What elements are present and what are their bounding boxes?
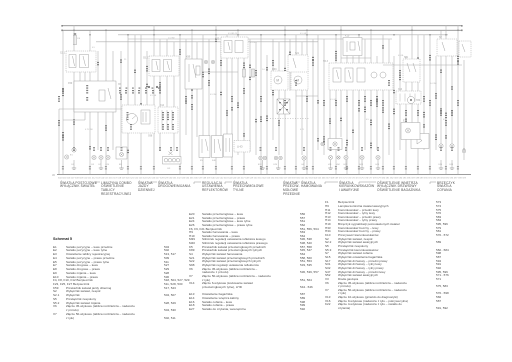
wire [295,35,297,174]
wire [73,26,75,150]
wire [215,26,217,174]
lamp E2 [65,155,69,159]
svg-text:0.5: 0.5 [366,119,370,121]
wire feeder [128,38,392,40]
wire [202,35,204,174]
svg-text:M: M [276,79,279,83]
connector X6 pins [118,84,160,89]
wire [358,35,360,174]
svg-text:F4: F4 [78,38,81,40]
svg-text:S21: S21 [295,53,300,55]
wire link S98 [59,108,122,110]
legend column 2b [189,293,305,296]
switch S15 [459,41,471,57]
svg-text:H11: H11 [328,164,332,166]
svg-text:0.75: 0.75 [300,129,305,131]
wire [62,30,64,174]
dashed link [270,118,310,120]
lamp E10 [106,155,110,159]
svg-text:H30: H30 [416,100,421,102]
relay K59 [68,81,116,112]
wire [260,35,262,174]
bus 15 [61,30,462,32]
turn signal switch S5.3 [323,60,393,90]
wire [411,26,413,132]
wire link [63,119,85,121]
coding plug X14 LHD [234,141,250,153]
svg-text:H9: H9 [302,164,305,166]
license lamp E3 [163,152,182,170]
legend column 2 [189,213,305,216]
wire [97,51,99,150]
relay K89 [185,56,202,90]
svg-text:K10: K10 [345,34,350,37]
wire [159,39,161,150]
header brackets [96,182,436,184]
svg-text:LHD: LHD [237,145,243,149]
svg-text:E16: E16 [439,164,443,166]
svg-text:S5.3: S5.3 [323,60,329,63]
wire [329,90,331,150]
connector marks [62,39,465,153]
motor M39 [271,69,288,90]
wire [301,42,303,155]
legend column 3 [325,201,493,204]
wire [289,39,291,91]
fuse F4 [73,33,81,44]
lamp H11 [328,155,332,159]
svg-text:0.75 SW: 0.75 SW [85,129,93,131]
bus 30 [61,25,462,27]
interior lamp E14 [401,121,420,140]
node junctions bus [73,29,459,31]
diagnostic connector X16 [396,89,421,104]
side marker H34 [337,156,340,159]
wire feeder 58 [118,34,448,36]
svg-text:E26: E26 [274,164,278,166]
wire [284,26,286,174]
wire [312,39,314,174]
wire [272,39,274,140]
door switch cluster S31 [403,57,420,82]
wire [382,35,384,174]
lamp E13 [462,149,466,153]
svg-text:E7: E7 [99,164,102,166]
svg-text:H34: H34 [336,164,341,166]
svg-text:M39: M39 [272,69,277,71]
wire [417,35,419,174]
wire [112,51,114,150]
ground symbols [72,160,454,170]
wire [376,56,378,150]
svg-text:K89: K89 [186,56,191,59]
wire [146,51,148,133]
lamp E8 in housing [116,147,127,159]
svg-text:0.5 BL: 0.5 BL [398,55,405,57]
connector block X8 [277,99,290,114]
svg-text:E9: E9 [92,164,95,166]
wire [237,30,239,155]
wire left margin [58,109,60,174]
switch unit S2.1 [60,51,96,72]
wire [423,35,425,150]
wire link [341,57,371,59]
wire [231,39,233,174]
wire [335,35,337,174]
wire [278,42,280,155]
svg-text:30: 30 [52,173,55,177]
connector pin ticks [62,166,459,169]
wire [153,26,155,174]
wire link [296,95,318,97]
svg-text:E1: E1 [70,155,73,157]
wire [451,56,453,146]
wire [255,42,257,155]
wire [457,26,459,174]
wire [173,42,175,151]
wire [429,35,431,174]
svg-text:E8: E8 [119,164,122,166]
wire [435,56,437,150]
wire [179,35,181,174]
leveling switch S98 [122,105,155,138]
switch unit S5.2 [143,56,179,76]
lamp E9 [92,155,96,159]
svg-text:E1: E1 [72,164,75,166]
lamp E24 [259,156,267,160]
switch S21 [288,53,308,72]
wire [393,56,395,174]
wire link [121,133,147,146]
wire [364,39,366,150]
svg-text:S31: S31 [404,57,409,59]
side marker H33 [321,142,324,145]
node X6 dots [148,86,158,88]
svg-text:S22: S22 [215,38,220,41]
lamp H14 [376,155,380,159]
lamp E16 [439,144,443,148]
wire [352,56,354,150]
wire [306,30,308,174]
wire [79,51,81,95]
svg-text:504 505 506 507 508 509 510 51: 504 505 506 507 508 509 510 511 512 513 … [58,178,467,180]
wire [463,60,465,160]
svg-text:E3: E3 [168,168,171,170]
svg-text:1.5 SW: 1.5 SW [168,38,175,40]
wire [388,39,390,155]
fuse F6 [243,69,246,77]
wire [191,30,193,174]
switch S7 [437,37,457,56]
svg-text:S5.2: S5.2 [143,57,149,60]
svg-text:E10: E10 [106,164,110,166]
wire [370,30,372,174]
buzzer H30 [407,96,421,103]
lamp E7 [99,155,103,159]
indicator lamps [204,60,214,63]
wire [323,39,325,155]
svg-text:E24: E24 [258,164,262,166]
lamp E26 [274,156,282,160]
coding connector X14 [158,105,178,133]
lamp E18 [450,144,454,148]
wire [105,30,107,174]
wire [399,35,401,150]
wire [196,42,198,137]
svg-text:25: 25 [124,59,127,61]
legend column 1 [53,237,72,241]
connector chains [58,60,459,138]
relay K5 [199,136,210,163]
svg-text:0.5 GR: 0.5 GR [300,33,307,35]
wire link [383,64,462,66]
motor M40 [291,69,308,90]
wire [134,35,136,105]
fuse F9 [252,69,255,77]
wire [127,35,129,174]
wire feeder [96,41,318,43]
wire [405,56,407,174]
svg-text:0.5 BR-25: 0.5 BR-25 [228,33,238,35]
wire [249,39,251,152]
svg-text:X16: X16 [398,89,403,91]
lamp E1 [70,148,76,157]
svg-text:0.5 GE: 0.5 GE [150,95,157,97]
wire [317,35,319,150]
wire [226,35,228,134]
diode V3 [411,132,429,149]
module housing [224,134,233,157]
wire [440,30,442,146]
ground rail 31 [52,173,471,177]
wire [84,51,86,120]
lamp H10 in housing [328,139,342,150]
relay module [212,136,223,163]
wire [208,39,210,158]
svg-text:S98: S98 [148,135,153,138]
wire link [203,71,238,73]
svg-text:0.5 GN: 0.5 GN [330,99,337,101]
lamp H9 [302,156,306,160]
svg-text:1.0 SW: 1.0 SW [430,83,437,85]
wire [243,42,245,174]
svg-text:X14: X14 [160,105,165,107]
wire [89,30,91,174]
wire [340,26,342,137]
wire [346,39,348,174]
wire [120,51,122,146]
wire [166,39,168,107]
svg-text:S7: S7 [439,37,443,39]
svg-text:S2.1: S2.1 [60,52,66,55]
wire [185,39,187,135]
svg-text:E14: E14 [403,121,408,123]
svg-text:0.5: 0.5 [92,47,96,49]
wire [445,26,447,174]
node junctions [89,34,447,36]
svg-text:E18: E18 [450,164,454,166]
wire [266,55,268,174]
lamp H13 [360,155,364,159]
svg-text:0.5 SW: 0.5 SW [210,94,217,96]
lamp H12 [344,155,348,159]
flasher relay K10 [343,34,362,55]
wire [220,42,222,155]
svg-text:K59: K59 [68,82,73,85]
switch S22 [215,37,248,58]
svg-text:1.0: 1.0 [262,69,266,71]
wire [140,35,142,174]
svg-text:0.5 WS: 0.5 WS [250,42,257,44]
lamp pin ticks and labels [72,147,454,166]
